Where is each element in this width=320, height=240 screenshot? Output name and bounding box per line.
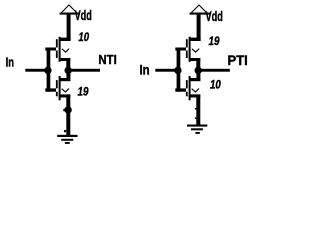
svg-text:NTI: NTI: [98, 52, 116, 67]
svg-text:PTI: PTI: [228, 52, 248, 68]
svg-text:19: 19: [78, 84, 89, 98]
svg-text:19: 19: [209, 34, 220, 48]
svg-text:10: 10: [210, 78, 221, 92]
svg-text:In: In: [140, 62, 150, 78]
svg-text:Vdd: Vdd: [206, 8, 223, 24]
svg-text:In: In: [6, 55, 14, 70]
svg-text:10: 10: [78, 30, 89, 44]
svg-text:Vdd: Vdd: [75, 7, 92, 23]
